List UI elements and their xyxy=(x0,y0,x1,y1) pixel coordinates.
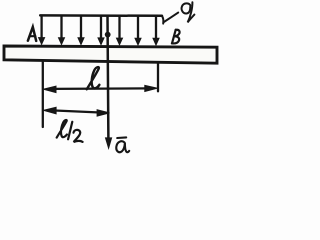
resultant force line Q (center line through beam) xyxy=(106,16,109,140)
right extension line xyxy=(157,63,159,92)
leader line to label q xyxy=(164,13,178,22)
label Q bar (resultant) xyxy=(116,137,129,152)
label B xyxy=(172,30,180,44)
beam AB (rectangle bar) xyxy=(4,46,217,63)
dimension line l/2 xyxy=(43,107,109,116)
arrowhead of force Q xyxy=(106,138,112,148)
dimension line l xyxy=(43,85,157,92)
load arrow 7 xyxy=(153,16,159,45)
load arrow 5 xyxy=(117,16,123,45)
label A xyxy=(28,27,36,41)
label l (script ell) xyxy=(87,67,100,89)
load arrow 3 xyxy=(78,16,84,45)
distributed load top line xyxy=(40,14,162,17)
load arrow 6 xyxy=(135,16,141,45)
left extension line xyxy=(42,62,44,127)
load line right end hook xyxy=(162,16,164,24)
load arrow 2 xyxy=(59,16,65,44)
label l/2 xyxy=(57,120,83,142)
load arrow 1 xyxy=(39,16,45,44)
load arrow 4 xyxy=(98,16,104,45)
label q (handwritten) xyxy=(182,2,195,22)
node dot on center line xyxy=(105,32,111,38)
